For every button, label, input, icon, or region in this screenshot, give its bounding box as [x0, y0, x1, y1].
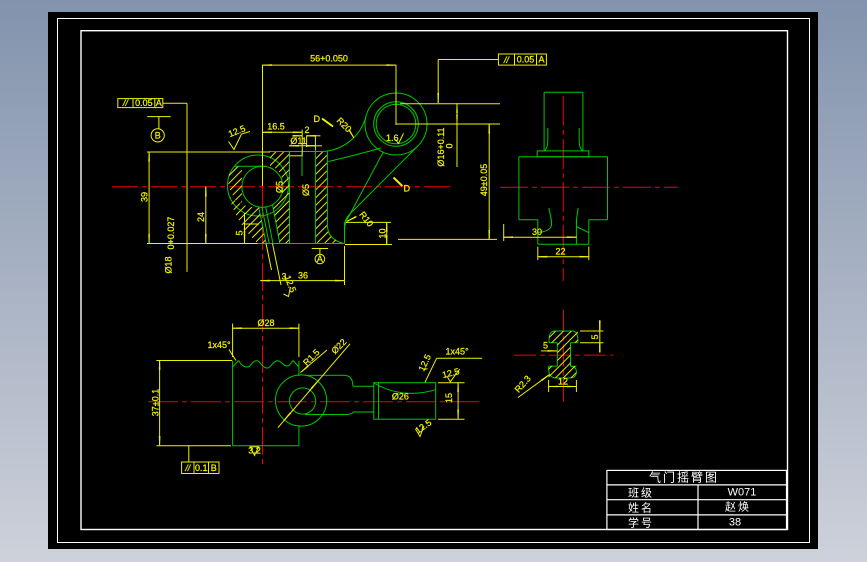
plan block bottom edge	[233, 445, 299, 447]
svg-text:15: 15	[444, 393, 454, 403]
svg-text:Ø5: Ø5	[301, 184, 311, 196]
phi22 diagonal dimension line	[278, 344, 350, 428]
arm upper concave R20 fillet arc	[321, 116, 367, 151]
foot bottom edge	[258, 243, 345, 245]
dim 15 ext top	[438, 382, 465, 384]
section view vertical centerline	[563, 310, 565, 406]
neck top line	[353, 385, 374, 387]
foot bottom edge	[538, 243, 589, 245]
section view horizontal centerline	[514, 354, 613, 356]
roughness 3.2 triangle under block	[250, 447, 258, 456]
svg-text:D: D	[404, 184, 411, 194]
svg-text:Ø5: Ø5	[275, 181, 285, 193]
roughness 12.5 front view	[229, 132, 251, 150]
dim 22 ext left	[537, 247, 539, 261]
body bottom left segment	[519, 219, 538, 221]
svg-text:Ø28: Ø28	[257, 318, 274, 328]
dim 37 line	[159, 361, 161, 446]
counterbore bottom line	[290, 155, 303, 157]
section bottom flange outline	[549, 366, 577, 378]
svg-text:D: D	[314, 114, 321, 124]
datum A symbol	[312, 249, 328, 264]
dim 5 right vertical ext top	[580, 330, 604, 332]
title block outline	[607, 470, 787, 529]
upper boss hole outer circle	[374, 102, 419, 147]
svg-text:1x45°: 1x45°	[445, 347, 469, 357]
stem inner right fillet line	[579, 128, 582, 151]
section top flange outline	[549, 331, 578, 343]
section bottom flange top right	[571, 365, 577, 367]
dim 15 line	[457, 383, 459, 420]
svg-text:0.05: 0.05	[517, 55, 535, 65]
hatch: lower left wedge	[220, 140, 350, 250]
roughness 12.5 check on ext line	[447, 369, 460, 382]
arm right 45deg silhouette line with fillet	[345, 146, 418, 226]
dim 10 top extension	[346, 221, 391, 223]
dim 30 left extension	[503, 224, 505, 241]
dim 12 ext right	[575, 380, 577, 392]
dim phi16 leader tail	[456, 124, 458, 167]
stem top	[544, 91, 583, 93]
dim 11 line	[290, 145, 316, 147]
dim 2 ext line right	[306, 136, 308, 147]
svg-text:10: 10	[377, 228, 387, 238]
hatch: right of hole column	[220, 140, 350, 250]
upper boss outer circle	[365, 93, 427, 155]
plan block right edge upper segment	[298, 361, 300, 376]
svg-text:Ø18: Ø18	[164, 256, 174, 273]
frame2 leader horizontal	[438, 59, 498, 61]
svg-text:5: 5	[235, 230, 245, 235]
D-D cut mark upper	[322, 119, 333, 127]
R20 leader	[350, 131, 354, 138]
dim 5 right vertical line	[599, 320, 601, 349]
stem left side	[543, 92, 545, 151]
slanted oil hole line 4	[273, 205, 280, 244]
svg-text:38: 38	[729, 517, 741, 529]
dim 30 line	[504, 236, 577, 238]
arm bottom edge in plan	[305, 414, 344, 416]
svg-text:A: A	[538, 55, 544, 65]
svg-text:A: A	[156, 98, 162, 108]
dim 39 line	[148, 152, 150, 244]
foot inner vertical line	[575, 220, 577, 245]
svg-text:A: A	[317, 254, 323, 264]
plan block wavy break line	[239, 361, 294, 369]
body top edge	[269, 151, 324, 153]
dim 56 ext right / upper boss vertical centerline	[395, 65, 397, 125]
svg-text:W071: W071	[728, 487, 757, 499]
rib section strip right edge with bottom fillet	[327, 152, 343, 244]
front/bottom view shared vertical centerline	[262, 181, 264, 464]
plan block left edge	[232, 361, 234, 446]
svg-text:49±0.05: 49±0.05	[479, 164, 489, 196]
svg-text:0.05: 0.05	[135, 98, 153, 108]
tolerance frame // 0.1 B	[182, 462, 219, 474]
dim 39 bottom extension	[147, 243, 258, 245]
svg-text:0.1: 0.1	[195, 463, 208, 473]
dim phi28 line	[233, 327, 299, 329]
slanted oil hole line 2	[262, 207, 269, 243]
pad right trumpet curve	[576, 208, 578, 225]
hatch: rib strip	[220, 140, 350, 250]
svg-text:3.2: 3.2	[248, 446, 261, 456]
svg-text:5: 5	[543, 341, 548, 351]
section top flange underside left	[549, 342, 557, 344]
dim 2 arrow right	[307, 135, 321, 137]
stem right side	[582, 92, 584, 151]
tolerance frame // 0.05 A (left)	[118, 99, 163, 108]
svg-text:37±0.1: 37±0.1	[151, 389, 161, 416]
svg-text:2: 2	[305, 125, 310, 135]
bottom view horizontal centerline	[148, 401, 482, 403]
arm bottom-right corner arc	[344, 412, 353, 415]
dim 5 right vertical ext bottom	[580, 342, 604, 344]
R1.5 leader	[301, 350, 327, 372]
dim 10 bottom extension	[345, 244, 392, 246]
svg-text:16.5: 16.5	[267, 122, 285, 132]
dim 49 line	[488, 124, 490, 239]
1x45 chamfer leader left	[229, 350, 236, 361]
svg-text:班级: 班级	[628, 486, 654, 499]
strip ext above	[314, 136, 316, 151]
svg-text:学号: 学号	[628, 515, 654, 529]
dim phi28 ext left	[232, 324, 234, 358]
pad left trumpet curve	[538, 208, 552, 233]
frame 0.1B leader	[188, 446, 190, 462]
dim 5 web line	[541, 350, 557, 352]
hole top extension line	[400, 103, 500, 105]
plan boss hole circle	[290, 388, 316, 414]
dim 5 line	[244, 213, 246, 224]
section top flange underside right	[571, 342, 578, 344]
dim 15 ext bottom	[438, 418, 465, 420]
slanted oil hole line 3	[266, 207, 273, 244]
foot right edge	[588, 220, 590, 245]
foot inner diagonal	[576, 227, 588, 233]
svg-text:气门摇臂图: 气门摇臂图	[649, 470, 719, 485]
body bottom right segment	[589, 219, 608, 221]
dim 37 top extension	[156, 360, 232, 362]
dim 56 ext left / left boss vertical centerline	[262, 65, 264, 186]
dim 36 right extension	[344, 246, 346, 285]
dim 5 top extension	[245, 223, 260, 225]
section web left	[556, 343, 558, 367]
dim 12 line	[549, 386, 577, 388]
side view horizontal centerline	[500, 186, 678, 188]
hatch: section top flange	[543, 325, 583, 383]
dim 37 bottom extension	[156, 445, 231, 447]
1x45 leader right horizontal	[437, 357, 483, 359]
svg-text:30: 30	[532, 227, 542, 237]
svg-text:B: B	[155, 131, 161, 141]
svg-text:24: 24	[196, 212, 206, 222]
R2.3 leader	[518, 375, 549, 398]
svg-text:1.6: 1.6	[386, 133, 399, 143]
oil hole yellow slant ext 2	[273, 244, 282, 286]
tolerance frame // 0.05 A (top right)	[498, 54, 546, 65]
D-D cut mark lower	[394, 178, 403, 187]
svg-text:0: 0	[445, 143, 455, 148]
svg-text:赵焕: 赵焕	[725, 500, 751, 514]
left boss outer circle	[228, 155, 289, 216]
svg-text:12: 12	[558, 376, 568, 386]
dim 56 line	[263, 64, 397, 66]
dim 2 ext line left	[301, 130, 303, 156]
body rect top	[519, 156, 608, 158]
foot right edge	[344, 223, 346, 244]
hatch: section web	[543, 325, 583, 383]
frame2 leader vertical with arrow	[437, 60, 439, 103]
stem inner left fillet line	[545, 128, 548, 151]
pad concave curve in plan	[374, 383, 436, 393]
dim 5 right arrows	[599, 325, 601, 331]
hatch: section bottom flange	[543, 325, 583, 383]
svg-text:Ø26: Ø26	[392, 392, 409, 402]
plan boss outer circle	[276, 375, 327, 426]
phi18 leader vertical	[186, 103, 188, 272]
dim 12 ext left	[548, 380, 550, 392]
body left	[518, 157, 520, 220]
dim 10 line	[386, 222, 388, 244]
neck bottom line	[353, 411, 374, 413]
section bottom flange top left	[549, 365, 558, 367]
counterbore step vertical line	[301, 152, 303, 177]
svg-text:1x45°: 1x45°	[207, 340, 231, 350]
front view horizontal centerline	[112, 186, 450, 188]
phi22 arrow lower	[284, 410, 293, 420]
dim 16.5 line	[263, 131, 302, 133]
roughness 12.5 below right block	[416, 426, 425, 437]
left boss hole circle	[242, 166, 283, 207]
dim 22 ext right	[588, 247, 590, 261]
hatch: left sliver	[220, 140, 350, 250]
dim 24 line	[205, 187, 207, 244]
right end block rect	[374, 383, 436, 420]
slanted oil hole line 1	[259, 208, 266, 244]
svg-text:5: 5	[590, 334, 600, 339]
arm web inner steep line to foot	[345, 153, 383, 230]
svg-text:0: 0	[166, 244, 176, 249]
right end chamfer vertical	[378, 383, 380, 420]
arm top-right corner arc	[344, 375, 353, 386]
counterbore top chord line	[235, 165, 267, 167]
dim 22 line	[538, 256, 589, 258]
svg-text:+0.027: +0.027	[166, 217, 176, 245]
1x45 leader right diagonal	[425, 358, 437, 382]
plan block top-left chamfer	[233, 361, 239, 368]
dim phi16 line	[456, 104, 458, 124]
upper boss hole chamfer circle	[376, 104, 416, 144]
svg-text:39: 39	[140, 192, 150, 202]
body right	[607, 157, 609, 220]
svg-text:Ø11: Ø11	[290, 136, 306, 146]
body left vertical line	[289, 152, 291, 244]
flange rect	[537, 151, 589, 157]
arm top edge in plan	[305, 374, 344, 376]
datum B symbol	[147, 117, 170, 142]
side view vertical centerline	[562, 96, 564, 281]
phi22 arrow upper	[309, 381, 318, 391]
svg-text:B: B	[211, 463, 217, 473]
oil hole yellow slant ext 1	[266, 244, 272, 271]
dim 49 bottom extension	[398, 238, 497, 240]
dim 11 ext right	[315, 145, 322, 147]
roughness 1.6 in upper boss hole	[396, 134, 404, 144]
plan block right edge lower segment	[298, 425, 300, 446]
R10 leader	[347, 217, 356, 222]
svg-text:56+0.050: 56+0.050	[310, 54, 348, 64]
phi18 leader horizontal	[163, 102, 187, 104]
roughness 12.5 near right block top	[424, 369, 428, 370]
dim 2 arrow left	[296, 135, 303, 137]
arm inner upper concave arc	[329, 148, 382, 162]
dim phi28 ext right	[298, 324, 300, 358]
dim 36 line	[260, 280, 344, 282]
foot left edge	[537, 220, 539, 245]
dim 39 top extension	[147, 151, 270, 153]
svg-text:36: 36	[298, 271, 308, 281]
upper boss horizontal centerline ext	[396, 123, 500, 125]
svg-text:姓名: 姓名	[628, 500, 654, 514]
svg-text:22: 22	[555, 247, 565, 257]
roughness 12.5 below foot (rotated)	[284, 287, 291, 297]
rib section strip left edge	[314, 152, 316, 244]
plan block top-right chamfer	[293, 361, 299, 368]
section web right	[570, 343, 572, 367]
inner white drawing frame	[81, 31, 788, 530]
